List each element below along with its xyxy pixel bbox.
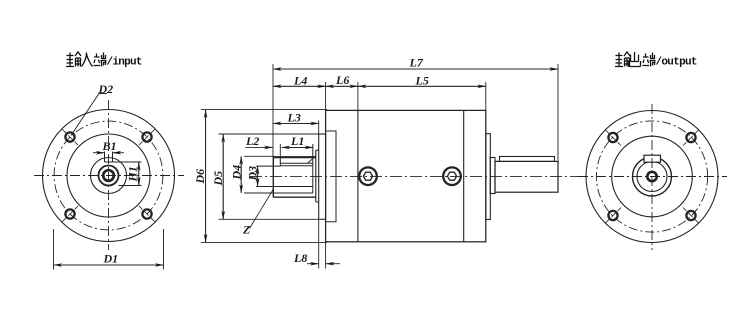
flange recess ring	[326, 131, 336, 222]
dim L5	[358, 82, 486, 110]
socket screw right	[443, 167, 461, 185]
body end-cap seam	[463, 110, 465, 241]
svg-text:B1: B1	[102, 139, 117, 153]
horizontal centerline output flange	[578, 176, 727, 178]
bolt hole bottom-left (output)	[608, 211, 617, 220]
output shaft inner circle	[637, 162, 667, 192]
dim L4	[273, 82, 326, 110]
svg-text:D1: D1	[103, 252, 119, 266]
output shaft side view	[495, 161, 558, 192]
output nose collar	[490, 158, 495, 194]
svg-text:L7: L7	[409, 56, 424, 70]
svg-text:L5: L5	[415, 74, 429, 88]
bolt hole top-left (input)	[65, 132, 74, 141]
inner pilot circle input flange	[67, 134, 150, 217]
svg-text:L4: L4	[293, 74, 307, 88]
svg-text:D5: D5	[211, 171, 225, 187]
title input end: 输入端/input	[66, 52, 107, 67]
dim L1	[280, 144, 313, 157]
dim D5	[219, 134, 319, 219]
dim L2 (outside arrows)	[245, 146, 272, 148]
input bore circle	[99, 166, 119, 186]
output shaft circle	[633, 157, 672, 196]
dim D3	[257, 166, 259, 186]
pilot disc D5 (width L8)	[319, 134, 326, 219]
svg-text:/input: /input	[107, 57, 143, 69]
bolt hole bottom-right (output)	[686, 211, 695, 220]
hub bore step vertical	[279, 157, 281, 166]
horizontal centerline input flange	[34, 175, 184, 177]
svg-text:D6: D6	[193, 169, 207, 185]
bolt hole bottom-right (input)	[142, 209, 151, 218]
hanzi 入	[82, 53, 93, 67]
hanzi 输	[66, 52, 81, 67]
flange outer circle (output)	[586, 111, 718, 243]
output shaft key	[500, 157, 555, 162]
bolt hole bottom-left (input)	[65, 209, 74, 218]
hub key strip bottom	[280, 165, 313, 167]
dim D6	[201, 110, 327, 243]
flange outer circle (input)	[43, 110, 175, 242]
dim L7	[273, 64, 558, 161]
dimension H1	[113, 162, 142, 186]
dim L6	[326, 82, 358, 110]
hub counterbore bottom line	[244, 192, 313, 194]
svg-text:H1: H1	[126, 166, 140, 182]
bolt hole top-right (output)	[686, 133, 695, 142]
dim L3	[273, 121, 319, 135]
gearbox flange and body outline	[326, 110, 486, 241]
svg-text:L3: L3	[287, 111, 301, 125]
output shaft keyway rectangle	[644, 155, 661, 162]
output shaft center dark circle	[647, 172, 656, 181]
hub key strip top	[280, 162, 313, 164]
svg-text:L1: L1	[290, 134, 304, 148]
socket screw left	[359, 167, 377, 185]
dimension B1 arrows	[93, 152, 124, 154]
hub bore D3 bottom	[256, 186, 313, 188]
hanzi 出	[629, 52, 641, 67]
svg-text:D2: D2	[98, 82, 114, 96]
hanzi 输	[615, 52, 630, 67]
bolt circle (dash-dot) output flange	[596, 121, 707, 232]
vertical centerline output flange	[651, 104, 653, 250]
title output end: 输出端/output	[615, 52, 656, 67]
step ring	[316, 150, 319, 202]
keyway slot input bore	[105, 152, 113, 163]
hub bore end vertical	[312, 144, 314, 193]
bolt hole top-left (output)	[608, 133, 617, 142]
dim D4	[241, 156, 274, 193]
svg-text:D4: D4	[230, 165, 244, 181]
svg-text:Z: Z	[242, 223, 251, 237]
main axis centerline	[250, 175, 587, 177]
input shaft small dark circle	[103, 170, 114, 181]
svg-text:D3: D3	[246, 166, 260, 182]
output bearing ring	[486, 134, 491, 220]
hub circle input flange	[91, 158, 127, 194]
svg-text:L6: L6	[335, 73, 349, 87]
input hub cylinder	[273, 157, 316, 197]
bolt hole top-right (input)	[142, 132, 151, 141]
vertical centerline input flange	[108, 100, 110, 250]
hanzi 端	[94, 53, 107, 67]
flange-body seam	[357, 110, 359, 241]
dimension D1	[54, 229, 164, 270]
inner pilot circle output flange	[612, 136, 693, 217]
leader D2	[71, 94, 107, 136]
svg-text:L8: L8	[293, 251, 307, 265]
bolt circle (dash-dot) input flange	[54, 121, 163, 230]
hub bore D3 top at face	[256, 165, 280, 167]
leader Z	[250, 189, 274, 229]
key end chamfer	[308, 159, 313, 164]
svg-text:/output: /output	[656, 57, 698, 69]
svg-text:L2: L2	[245, 134, 259, 148]
dim L8 (outside arrows)	[307, 219, 340, 268]
hanzi 端	[643, 53, 656, 67]
